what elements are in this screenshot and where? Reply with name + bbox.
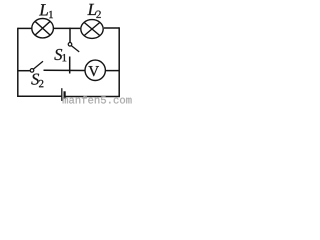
switch S2 lever (33, 61, 43, 69)
switch S1 lever (71, 46, 79, 52)
battery long plate (positive) (61, 88, 63, 101)
switch S1 feed wire (from top wire junction down) (69, 28, 71, 43)
wire between L1 and L2 (54, 27, 80, 29)
middle wire: voltmeter to right vertical (106, 70, 119, 72)
watermark manfen5.com (63, 96, 132, 104)
label S2 (31, 74, 43, 88)
switch S1 pivot circle (68, 43, 72, 47)
middle wire: left vertical to S2 (18, 70, 30, 72)
middle wire: S2 to voltmeter (44, 69, 85, 71)
lamp L1 (32, 19, 54, 38)
label S1 (54, 49, 66, 61)
switch S1 lower wire (down to middle wire) (69, 57, 71, 74)
wire bottom right of battery (65, 96, 120, 98)
voltmeter V (85, 60, 105, 80)
battery short thick plate (negative) (63, 91, 65, 99)
wire bottom left of battery (18, 95, 62, 97)
lamp L2 (81, 20, 103, 39)
switch S2 pivot circle (30, 69, 34, 73)
label V inside voltmeter (88, 66, 98, 76)
wire top right segment (104, 27, 119, 29)
label L1 (39, 4, 53, 18)
wire left vertical (17, 28, 19, 97)
wire top left segment (18, 27, 32, 29)
wire right vertical (118, 27, 120, 97)
label L2 (87, 4, 100, 18)
